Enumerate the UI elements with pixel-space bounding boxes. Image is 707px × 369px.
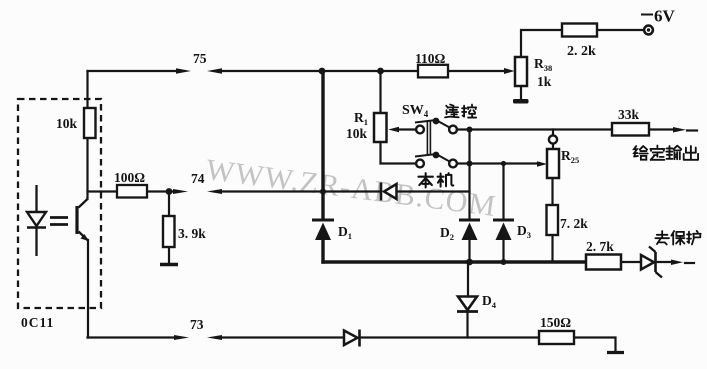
svg-text:3. 9k: 3. 9k [178, 226, 206, 241]
resistor 7.2k [547, 205, 559, 235]
protection label (qu bao hu) [655, 231, 700, 245]
arrow break 75 left [207, 68, 222, 73]
resistor 110ohm [418, 65, 448, 78]
wire 3.9k top lead [168, 192, 170, 217]
svg-text:0C11: 0C11 [21, 315, 54, 330]
svg-text:110Ω: 110Ω [415, 51, 446, 66]
wire 73 bus mid [218, 336, 344, 338]
wire vertical D2 branch upper [468, 130, 470, 220]
wire R38 top to 2.2k [521, 30, 562, 57]
junction dot lower line / D2 branch [467, 161, 473, 167]
wire D3 to thick bus [502, 240, 504, 261]
R2s top terminal circle [549, 135, 557, 143]
zener diode to protection [641, 255, 654, 270]
thick vertical bus lower [321, 240, 324, 264]
resistor 2.7k [586, 255, 621, 270]
switch SW4 lower-left contact [416, 160, 424, 168]
wire emitter down to 73 bus [87, 240, 89, 338]
diode D3 [493, 219, 514, 222]
diode on 74 line (points left) [380, 183, 383, 201]
junction dot 75/R1 [377, 68, 384, 75]
switch SW4 lower-right contact [449, 160, 457, 168]
resistor 10k (opto) [84, 108, 96, 138]
svg-text:1k: 1k [537, 74, 552, 89]
junction dot lower line / D3 branch [501, 161, 506, 166]
potentiometer R1 [374, 113, 387, 142]
arrow protection right end [671, 260, 683, 266]
wire D2 to thick bus [468, 240, 470, 261]
wire 74 diode to vertical bus [397, 190, 470, 192]
diode D4 (points down) [458, 297, 477, 311]
wire D4 top lead [467, 262, 469, 296]
junction dot 74/thick bus [320, 189, 326, 195]
resistor 2.2k [562, 24, 597, 37]
wire 75 bus left segment [88, 70, 177, 72]
wire switch upper-right to 33k line [457, 128, 612, 130]
svg-text:6V: 6V [654, 7, 676, 26]
switch SW4 upper-right contact [449, 126, 457, 134]
wire R2s stem to 33k line [552, 130, 554, 136]
wire R2s circle to body [552, 144, 554, 150]
junction dot thick bus / D3 [501, 259, 507, 265]
wire 7.2k bottom to thick bus [551, 235, 553, 261]
arrow break 74 left [207, 189, 222, 194]
potentiometer R2s [547, 149, 559, 178]
svg-text:2. 7k: 2. 7k [586, 239, 614, 254]
wire 75 bus main segment [218, 70, 418, 72]
3.9k ground [160, 263, 178, 266]
R2s wiper arrow [537, 161, 547, 166]
wire 2.2k to -6V terminal [597, 29, 644, 31]
diode D1 [312, 219, 334, 222]
wire 74 line mid [218, 190, 380, 192]
svg-text:150Ω: 150Ω [540, 315, 571, 330]
wire R1 top lead [379, 71, 381, 113]
wire R38 bottom lead [520, 86, 522, 98]
R1 wiper arrow [388, 127, 399, 133]
wire R1 bottom lead to switch [381, 142, 416, 164]
R38 ground [513, 99, 529, 104]
R38 wiper arrow [504, 68, 515, 74]
diode on 73 line (points right) [344, 331, 358, 346]
wire protection continuation dash [685, 262, 694, 264]
wire output continuation dash [687, 129, 697, 131]
wire zener to protection arrow [656, 261, 671, 263]
wire 73 bus left [88, 336, 175, 338]
switch SW4 lower arm [415, 154, 451, 162]
switch SW4 lower pivot [433, 152, 440, 159]
svg-text:33k: 33k [618, 107, 640, 122]
svg-text:75: 75 [193, 51, 207, 66]
svg-text:10k: 10k [56, 116, 78, 131]
resistor 3.9k [163, 216, 175, 247]
local label (ben ji) [418, 173, 453, 187]
arrow output right end [673, 127, 686, 133]
terminal -6V [644, 26, 653, 35]
thick vertical bus [321, 71, 324, 219]
svg-text:74: 74 [191, 171, 205, 186]
junction dot 33k line / D2 branch [467, 127, 473, 133]
wire 3.9k ground stem [168, 247, 170, 263]
svg-text:2. 2k: 2. 2k [567, 44, 596, 59]
output label (gei ding shu chu) [634, 146, 698, 160]
potentiometer R38 [515, 57, 527, 86]
wire R1 wiper to contact [398, 128, 416, 130]
wire 74 line from transistor to 100ohm [88, 190, 118, 192]
wire 33k to output arrow [649, 128, 674, 130]
wire 100ohm to junction [147, 190, 174, 192]
wire D4 bottom lead [466, 313, 468, 338]
optocoupler dashed box [18, 99, 101, 308]
wire 73 bus diode to 150ohm [361, 336, 539, 338]
wire 10k to transistor collector [86, 138, 88, 199]
wire switch lower-right to R2s wiper [457, 162, 538, 164]
junction dot 74/3.9k [166, 188, 173, 195]
wire left vertical from 75 bus to 10k [86, 71, 88, 108]
resistor 33k [612, 123, 649, 136]
remote label (yao kong) [445, 105, 476, 118]
resistor 150ohm [539, 331, 574, 344]
150ohm ground [607, 351, 624, 354]
LED of optocoupler [35, 185, 37, 212]
svg-text:73: 73 [190, 317, 204, 332]
arrow break 75 right [176, 68, 191, 73]
junction dot 75/thick bus [319, 68, 326, 75]
wire from 110ohm to R38 wiper [448, 70, 505, 72]
diode D2 [459, 219, 480, 222]
arrow break 73 left [207, 335, 222, 340]
light coupling dashes [50, 218, 68, 225]
switch SW4 upper arm [415, 120, 451, 128]
watermark [204, 153, 498, 223]
phototransistor [79, 199, 88, 208]
svg-text:7. 2k: 7. 2k [560, 216, 588, 231]
wire D3 branch [502, 164, 504, 220]
thick bottom bus [321, 260, 586, 263]
arrow break 74 right [173, 189, 188, 194]
wire 150ohm to ground corner [574, 338, 616, 352]
switch SW4 upper-left contact [416, 126, 424, 134]
svg-text:100Ω: 100Ω [114, 170, 145, 185]
svg-text:10k: 10k [346, 126, 368, 141]
wire 2.7k to zener [621, 261, 641, 263]
junction dot thick bus / D2 [466, 259, 473, 266]
switch SW4 mechanical link [427, 122, 430, 156]
wire R2s bottom to 7.2k [551, 178, 553, 205]
-6V label [641, 14, 653, 16]
resistor 100ohm [117, 185, 147, 198]
switch SW4 upper pivot [433, 118, 440, 125]
arrow break 73 right [174, 335, 189, 340]
